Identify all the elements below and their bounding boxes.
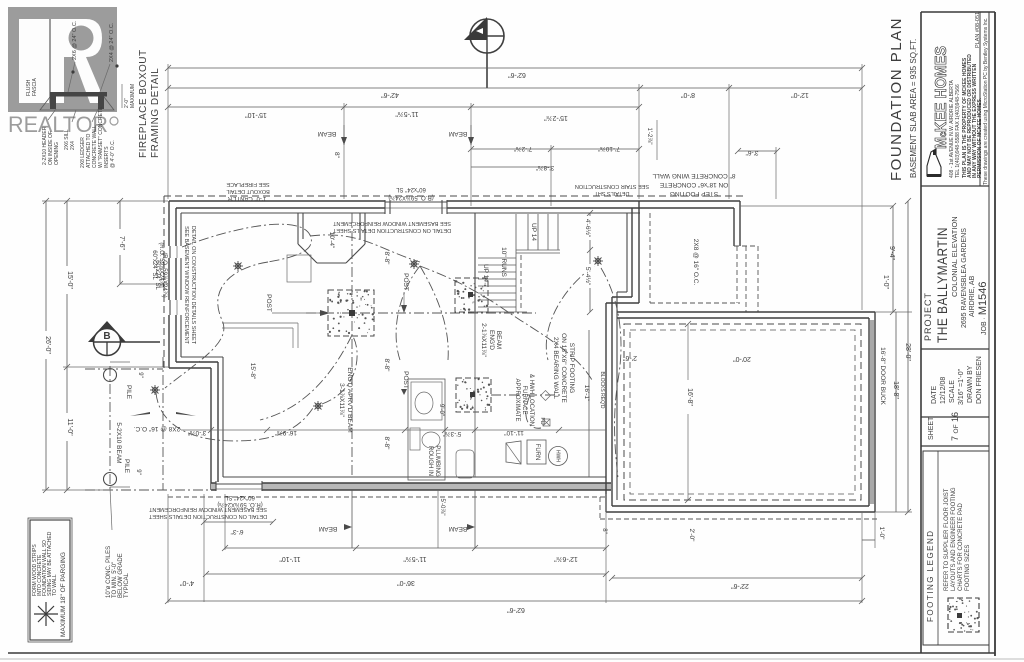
pile note	[106, 488, 130, 598]
re-draw left dim texts above underlays	[44, 219, 693, 436]
svg-text:FOOTING SIZES: FOOTING SIZES	[965, 545, 971, 591]
svg-text:15'-0": 15'-0"	[66, 271, 73, 289]
svg-text:42'-6": 42'-6"	[381, 91, 399, 98]
footing legend box	[923, 451, 989, 645]
electrical curves dash-dot	[156, 224, 621, 478]
svg-text:2X6 @ 24" O.C.: 2X6 @ 24" O.C.	[72, 20, 78, 60]
svg-text:ROUGH IN: ROUGH IN	[427, 446, 433, 476]
bottom right dim 1'-0"	[862, 512, 885, 603]
svg-text:9'-0": 9'-0"	[438, 404, 444, 416]
fireplace boxout detail drawing	[40, 62, 114, 122]
svg-text:FASCIA: FASCIA	[32, 78, 38, 96]
light symbols	[150, 256, 603, 411]
svg-text:18'-8": 18'-8"	[892, 381, 899, 399]
garage top wall	[617, 312, 875, 318]
svg-text:60"x24" SL: 60"x24" SL	[154, 260, 160, 290]
svg-text:BLOCKS REQ'D: BLOCKS REQ'D	[599, 371, 605, 408]
svg-text:3/16" =1'-0": 3/16" =1'-0"	[958, 368, 965, 405]
svg-text:BEAM: BEAM	[449, 130, 467, 137]
lower-left wall	[211, 357, 223, 490]
interior partition top-left room	[222, 323, 298, 380]
left wall jog	[169, 357, 223, 368]
stair labels	[482, 223, 537, 282]
svg-text:2X4 @ 24" O.C.: 2X4 @ 24" O.C.	[109, 22, 115, 62]
svg-text:SCALE: SCALE	[949, 380, 956, 403]
svg-text:2695 RAVENSBLEA GARDENS: 2695 RAVENSBLEA GARDENS	[961, 228, 968, 328]
wing wall right stub	[734, 201, 758, 312]
svg-text:MAXIMUM: MAXIMUM	[130, 84, 136, 108]
dashed footing step bottom right	[600, 497, 880, 542]
POST labels	[265, 273, 409, 395]
svg-text:60"x24" SL: 60"x24" SL	[225, 494, 255, 500]
svg-text:HWH: HWH	[555, 450, 561, 462]
svg-text:FRAMING DETAIL: FRAMING DETAIL	[150, 68, 161, 158]
bottom BEAM labels	[319, 490, 475, 548]
svg-text:OPENING: OPENING	[54, 142, 60, 165]
fireplace detail title	[138, 49, 161, 158]
bottom dim 62'-6" and 22'-6"	[165, 494, 865, 613]
svg-text:11'-0": 11'-0"	[66, 418, 73, 436]
beam label left	[338, 367, 353, 432]
wing wall label	[652, 172, 735, 197]
bearing wall label	[552, 333, 605, 409]
section marker B	[88, 321, 160, 356]
svg-text:16'-8" DOOR BUCK: 16'-8" DOOR BUCK	[879, 347, 886, 405]
McKee Homes logo block	[921, 12, 989, 186]
north arrow	[464, 17, 504, 88]
svg-text:7'-6": 7'-6"	[118, 236, 125, 250]
svg-text:@ 4'-0" O.C.: @ 4'-0" O.C.	[110, 140, 116, 168]
pad footing P3	[456, 378, 560, 412]
svg-text:(R.O. 59⅞X24⅞): (R.O. 59⅞X24⅞)	[161, 252, 167, 297]
svg-text:ENG'D: ENG'D	[488, 330, 495, 350]
stairs	[472, 213, 560, 312]
svg-text:PILE: PILE	[123, 459, 130, 474]
svg-text:ON 18"x6" CONCRETE: ON 18"x6" CONCRETE	[659, 181, 728, 188]
left dim chain 26'-0"	[43, 198, 51, 493]
white underlays for dim texts	[41, 216, 913, 441]
svg-text:COLONIAL ELEVATION: COLONIAL ELEVATION	[950, 216, 959, 297]
svg-text:DON FRIESEN: DON FRIESEN	[976, 356, 983, 404]
stair note	[575, 183, 649, 196]
svg-text:APPROXIMATE: APPROXIMATE	[514, 379, 520, 422]
svg-text:TEL 1(403)948-5588 FAX 1(40: TEL 1(403)948-5588 FAX 1(403)948-7566	[955, 84, 961, 178]
svg-text:PILE: PILE	[125, 385, 132, 400]
garage right wall	[869, 312, 875, 512]
svg-text:REFER TO SUPPLIER FLOOR JOIST: REFER TO SUPPLIER FLOOR JOIST	[944, 488, 950, 591]
svg-text:4'-0": 4'-0"	[180, 579, 194, 586]
svg-text:FIREPLACE BOXOUT: FIREPLACE BOXOUT	[138, 49, 149, 158]
window reinforcement note left	[154, 226, 196, 345]
bottom wall	[168, 477, 611, 497]
right wall jog	[606, 292, 639, 303]
project block	[921, 216, 989, 349]
svg-text:12/12/08: 12/12/08	[940, 377, 947, 404]
svg-text:POST: POST	[402, 273, 409, 291]
svg-text:STRIP FOOTING: STRIP FOOTING	[568, 343, 575, 393]
svg-text:SHEET: SHEET	[928, 416, 935, 440]
svg-text:(R.O. 59⅞X24⅞): (R.O. 59⅞X24⅞)	[388, 194, 433, 200]
svg-text:2X8 @ 16" O.C.: 2X8 @ 16" O.C.	[134, 425, 181, 432]
top dim extension lines	[168, 64, 862, 310]
svg-text:3-1⅞X11⅞": 3-1⅞X11⅞"	[338, 383, 345, 417]
svg-text:11'-5⅞": 11'-5⅞"	[403, 555, 427, 562]
svg-text:BEAM: BEAM	[495, 331, 502, 349]
parging note box	[28, 518, 72, 642]
svg-text:THE BALLYMARTIN: THE BALLYMARTIN	[934, 227, 950, 343]
svg-text:12'-6⅞": 12'-6⅞"	[554, 555, 578, 562]
svg-text:10" RUNS: 10" RUNS	[500, 247, 507, 277]
fireplace boxout interior stubs	[287, 213, 365, 282]
svg-text:MAXIMUM 18" OF PARGING: MAXIMUM 18" OF PARGING	[60, 552, 67, 637]
svg-text:6'-3": 6'-3"	[230, 528, 244, 535]
svg-text:DRAWN BY: DRAWN BY	[967, 365, 974, 403]
svg-text:FOOTING LEGEND: FOOTING LEGEND	[926, 529, 935, 622]
svg-text:1'-0": 1'-0"	[882, 275, 889, 289]
drawing title: FOUNDATION PLAN	[888, 17, 918, 181]
beam markers on top dims	[318, 125, 474, 145]
svg-text:DATE: DATE	[931, 386, 938, 404]
svg-text:9'-4": 9'-4"	[888, 246, 895, 260]
svg-text:BEAM: BEAM	[449, 525, 467, 532]
svg-text:SEE BASEMENT WINDOW REINFORCEM: SEE BASEMENT WINDOW REINFORCEMENT	[183, 226, 189, 344]
svg-text:2'-6": 2'-6"	[623, 354, 637, 361]
svg-text:9": 9"	[137, 372, 143, 377]
svg-text:& HWH LOCATION: & HWH LOCATION	[528, 374, 534, 426]
svg-text:8" CONCRETE WING WALL: 8" CONCRETE WING WALL	[652, 172, 735, 179]
svg-text:2'-0": 2'-0"	[688, 529, 695, 543]
bottom dim 36'-0"	[203, 571, 609, 586]
fireplace note top-left	[226, 181, 270, 201]
fireplace detail annotations	[26, 20, 136, 168]
svg-text:4'-6½": 4'-6½"	[584, 219, 592, 238]
svg-text:3'-0⅞": 3'-0⅞"	[187, 429, 206, 436]
left dim chain 15'-0" / 11'-0"	[42, 198, 168, 493]
right side dim 9'-4" and 1'-0"	[740, 203, 912, 315]
svg-text:DETAIL ON CONSTRUCTION DETAILS: DETAIL ON CONSTRUCTION DETAILS SHEET	[148, 513, 267, 519]
main foundation walls: top wall	[169, 201, 740, 213]
bottom dim chain 11'-10 / 11'-5 / 12'-6	[222, 494, 609, 562]
cantilever dashed line above top wall	[164, 195, 744, 197]
svg-text:62'-6": 62'-6"	[507, 606, 525, 613]
left dim 7'-6"	[117, 198, 168, 287]
svg-text:POST: POST	[265, 294, 272, 312]
svg-text:FURNACE: FURNACE	[521, 385, 527, 414]
top dimension line 42'-6" / 8'-0" / 12'-0"	[165, 85, 865, 98]
svg-text:LAYOUTS AND ENGINEER FOOTING: LAYOUTS AND ENGINEER FOOTING	[951, 487, 957, 591]
svg-text:1'-2⅞": 1'-2⅞"	[646, 128, 652, 145]
beam line center vertical	[352, 213, 475, 548]
svg-text:PLUMBING: PLUMBING	[434, 445, 440, 477]
svg-text:11'-10": 11'-10"	[503, 429, 523, 436]
svg-text:20'-0": 20'-0"	[733, 355, 751, 362]
svg-text:1'-0": 1'-0"	[878, 527, 885, 541]
svg-text:UP 14: UP 14	[530, 223, 537, 241]
svg-text:SEE BASEMENT WINDOW REINFORCEM: SEE BASEMENT WINDOW REINFORCEMENT	[332, 220, 450, 226]
top dimension line 62'-6"	[165, 65, 865, 78]
window reinforcement note bottom	[148, 506, 267, 519]
asterisk symbol	[34, 602, 58, 626]
svg-text:15'-10": 15'-10"	[245, 111, 267, 118]
svg-text:9": 9"	[135, 469, 141, 474]
footing legend pad symbol	[948, 598, 979, 632]
floor drain	[539, 417, 550, 426]
svg-text:12'-0": 12'-0"	[791, 91, 809, 98]
svg-text:FD: FD	[539, 417, 545, 424]
porch piles bottom-left	[85, 357, 211, 490]
svg-text:CHARTS FOR CONCRETE PAD: CHARTS FOR CONCRETE PAD	[958, 503, 964, 591]
svg-text:PROJECT: PROJECT	[923, 292, 933, 341]
svg-text:28'-0": 28'-0"	[904, 343, 911, 361]
svg-text:BOXOUT DETAIL: BOXOUT DETAIL	[226, 188, 270, 194]
svg-text:8'-8": 8'-8"	[383, 359, 390, 373]
REALTOR watermark square	[8, 7, 117, 112]
svg-text:BEAM: BEAM	[319, 525, 337, 532]
svg-text:5'-3⅞": 5'-3⅞"	[442, 430, 461, 437]
svg-text:These drawings are created usi: These drawings are created using MicroSt…	[983, 17, 989, 185]
bottom dim 6'-3"	[201, 494, 276, 602]
REALTOR watermark text	[8, 112, 118, 137]
svg-text:2X8 @ 16" O.C.: 2X8 @ 16" O.C.	[692, 239, 699, 286]
top wall window opening	[385, 186, 447, 214]
left wall window openings	[151, 242, 182, 315]
svg-text:3'-6": 3'-6"	[745, 149, 759, 156]
svg-text:10'-4": 10'-4"	[328, 232, 335, 249]
svg-text:B: B	[103, 331, 110, 342]
svg-text:UP 14: UP 14	[482, 264, 489, 282]
svg-text:60"x24" SL: 60"x24" SL	[396, 186, 426, 192]
svg-text:5'-0⅞": 5'-0⅞"	[439, 499, 445, 516]
svg-text:15'-2⅞": 15'-2⅞"	[544, 114, 568, 121]
sheet bottom border	[0, 653, 1024, 659]
sheet number block	[921, 412, 989, 446]
svg-text:7'-10⅞": 7'-10⅞"	[597, 145, 620, 152]
svg-text:8'-8": 8'-8"	[383, 437, 390, 451]
svg-text:SEE FIREPLACE: SEE FIREPLACE	[226, 181, 269, 187]
garage dims inside	[623, 321, 751, 503]
bottom wall window opening	[216, 481, 263, 507]
svg-text:8": 8"	[333, 152, 340, 159]
date scale drawn-by block	[921, 356, 989, 417]
top dimension line 15'-10" / 11'-5 / 15'-2	[165, 104, 642, 121]
svg-text:16'-1": 16'-1"	[583, 385, 590, 402]
svg-text:16'-8": 16'-8"	[686, 388, 693, 406]
svg-text:2X4 BEARING WALL: 2X4 BEARING WALL	[552, 337, 559, 399]
pad footing P2	[455, 278, 488, 312]
svg-text:22'-6": 22'-6"	[731, 582, 749, 589]
svg-text:11'-5⅞": 11'-5⅞"	[395, 110, 419, 117]
svg-text:5-2X10 BEAM: 5-2X10 BEAM	[115, 422, 122, 463]
svg-text:36'-0": 36'-0"	[397, 579, 415, 586]
garage door buck shading	[870, 320, 875, 504]
right side dim 28'-0" 18'-8"	[640, 198, 912, 515]
svg-text:DETAIL ON CONSTRUCTION DETAILS: DETAIL ON CONSTRUCTION DETAILS SHEET	[332, 227, 451, 233]
svg-text:5'-4½": 5'-4½"	[584, 267, 592, 286]
svg-text:TO WALL: TO WALL	[52, 574, 58, 596]
svg-text:1'-0" CANTL'R: 1'-0" CANTL'R	[227, 195, 266, 201]
window reinforcement note top	[332, 220, 451, 233]
bathroom	[408, 379, 474, 480]
svg-text:26'-0": 26'-0"	[44, 336, 51, 354]
svg-text:8'-8": 8'-8"	[383, 252, 390, 266]
right wall lower	[606, 292, 617, 512]
sheet borders right	[921, 12, 995, 656]
svg-text:DETAILS SHT: DETAILS SHT	[594, 190, 630, 196]
svg-text:PLAN #08-051: PLAN #08-051	[975, 12, 981, 48]
svg-text:2-1⅞X11⅞": 2-1⅞X11⅞"	[480, 323, 487, 357]
garage inner dashed	[624, 324, 861, 500]
svg-text:62'-6": 62'-6"	[508, 71, 526, 78]
wing wall dashed area	[650, 213, 740, 303]
svg-text:BEAM: BEAM	[318, 130, 336, 137]
svg-text:STEP FOOTING: STEP FOOTING	[670, 190, 718, 197]
svg-text:ON 18"X6" CONCRETE: ON 18"X6" CONCRETE	[560, 333, 567, 403]
svg-text:AIRDRIE, AB: AIRDRIE, AB	[969, 275, 976, 317]
right wall upper	[627, 201, 639, 303]
svg-text:SEE BASEMENT WINDOW REINFORCEM: SEE BASEMENT WINDOW REINFORCEMENT	[148, 506, 266, 512]
furnace location label	[514, 374, 534, 426]
svg-text:BASEMENT SLAB AREA = 935 SQ.F: BASEMENT SLAB AREA = 935 SQ.FT.	[909, 39, 918, 178]
pad footing P1	[306, 213, 536, 477]
svg-text:11'-10": 11'-10"	[279, 555, 301, 562]
svg-text:2X4: 2X4	[70, 141, 76, 150]
svg-text:FOUNDATION PLAN: FOUNDATION PLAN	[888, 17, 905, 181]
bearing wall line	[541, 330, 589, 477]
svg-text:7'-2⅞": 7'-2⅞"	[513, 145, 532, 152]
garage bottom wall	[606, 506, 875, 512]
svg-text:TYPICAL: TYPICAL	[124, 572, 130, 598]
svg-text:8'-0": 8'-0"	[681, 91, 695, 98]
svg-text:15'-8": 15'-8"	[249, 363, 256, 380]
furnace	[506, 440, 568, 466]
8'-8" dims along beam	[333, 152, 390, 450]
left wall	[164, 196, 181, 368]
interior dim line across	[181, 427, 606, 437]
stair dims 7'-2 / 7'-10 / 3'-8	[468, 145, 780, 171]
speckles pattern for pads	[329, 280, 979, 631]
svg-text:x: x	[543, 551, 547, 558]
house icon	[927, 149, 941, 177]
svg-text:FURN: FURN	[534, 444, 540, 461]
stair dims right	[584, 210, 593, 315]
beam label right	[480, 323, 502, 357]
svg-text:SEE STAIR CONSTRUCTION: SEE STAIR CONSTRUCTION	[575, 183, 649, 189]
